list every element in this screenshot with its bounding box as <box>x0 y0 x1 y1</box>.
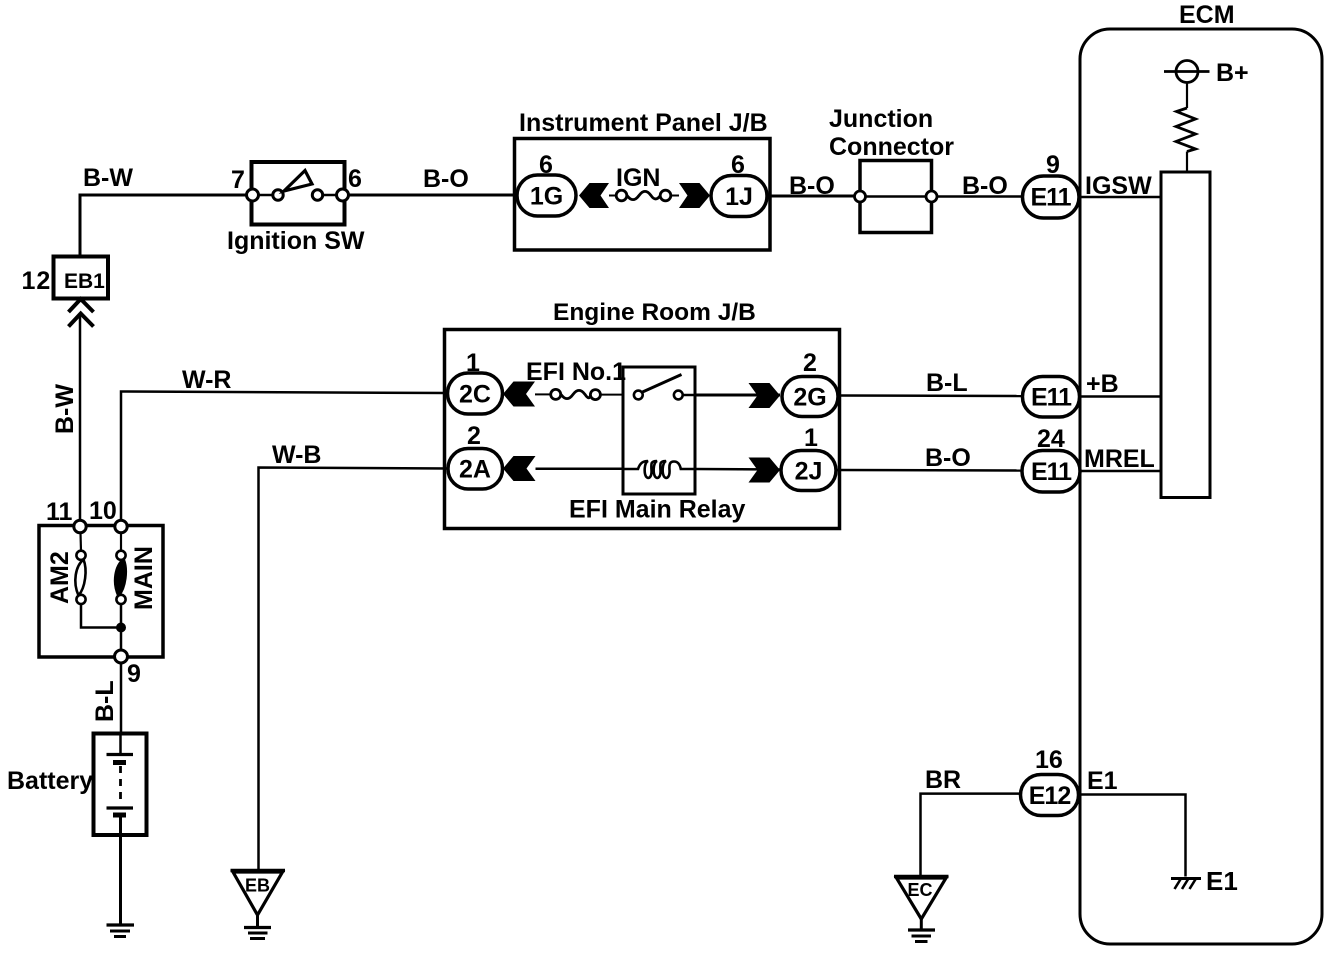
connector E12 <box>1021 775 1079 816</box>
wire B-W horizontal top-left <box>80 195 247 256</box>
B+ node symbol <box>1164 70 1210 73</box>
svg-text:Instrument Panel J/B: Instrument Panel J/B <box>519 109 768 137</box>
svg-text:2C: 2C <box>459 381 491 409</box>
svg-text:EC: EC <box>908 880 933 900</box>
svg-text:12: 12 <box>22 267 52 295</box>
svg-text:B-O: B-O <box>962 172 1008 200</box>
svg-text:EFI Main Relay: EFI Main Relay <box>569 496 746 524</box>
relay contact left <box>634 391 643 400</box>
svg-text:2G: 2G <box>793 384 826 412</box>
EC stem <box>920 919 923 930</box>
fuse box terminal 10 <box>115 520 127 532</box>
shield chevron 1 <box>69 299 94 312</box>
svg-text:Ignition SW: Ignition SW <box>227 227 365 255</box>
svg-text:B-W: B-W <box>83 164 133 192</box>
ignition SW box <box>252 162 345 225</box>
AM2 fuse element <box>75 560 85 596</box>
MAIN fuse top lead <box>120 533 122 551</box>
wire 2G to E11 +B <box>838 394 1023 397</box>
battery plate long bottom <box>107 806 134 809</box>
junction connector internal wire <box>866 195 926 198</box>
connector 2C <box>448 373 503 414</box>
junction dot <box>116 623 126 633</box>
connector 2J <box>781 451 836 491</box>
EB ground <box>244 926 271 929</box>
ignition SW internal wire left <box>257 194 274 196</box>
wire W-R from corner to 2C <box>121 392 448 521</box>
svg-text:AM2: AM2 <box>46 551 74 604</box>
svg-text:Engine Room J/B: Engine Room J/B <box>553 299 756 326</box>
battery dashed link <box>119 766 122 804</box>
arrow into 2A (points left) <box>503 456 536 481</box>
svg-text:EB: EB <box>245 876 270 896</box>
EC ground <box>908 928 935 931</box>
svg-text:IGN: IGN <box>616 164 660 192</box>
ignition SW inner contact left <box>273 190 283 200</box>
connector 1J <box>711 176 767 217</box>
AM2 to junction wire <box>81 604 121 628</box>
svg-text:B-W: B-W <box>51 384 79 434</box>
connector E11 (MREL) <box>1022 451 1080 493</box>
svg-text:W-R: W-R <box>182 366 231 394</box>
svg-text:7: 7 <box>231 166 245 194</box>
wire E11 to strip (+B) <box>1080 395 1161 398</box>
relay lever <box>643 375 682 393</box>
connector 1G <box>517 175 576 216</box>
svg-text:2J: 2J <box>795 458 823 486</box>
svg-text:B+: B+ <box>1216 59 1249 87</box>
wire BR from EC to E12 <box>921 794 1022 875</box>
svg-text:W-B: W-B <box>272 441 321 469</box>
battery plate short top <box>113 760 126 765</box>
wire relay to 2G arrow <box>695 394 780 397</box>
fuse EFI No.1 symbol <box>535 393 551 395</box>
svg-text:6: 6 <box>348 165 362 193</box>
svg-text:B-O: B-O <box>423 165 469 193</box>
svg-text:2A: 2A <box>459 456 491 484</box>
wire E12 to internal ground <box>1080 795 1186 877</box>
junction connector box <box>860 161 932 233</box>
svg-text:BR: BR <box>925 766 961 794</box>
svg-text:E12: E12 <box>1029 782 1071 810</box>
svg-text:11: 11 <box>46 498 73 526</box>
fuse IGN symbol <box>609 195 616 197</box>
ignition SW lever <box>284 171 312 192</box>
shield chevron 2 <box>69 314 94 327</box>
fuse box terminal 9 <box>115 650 128 663</box>
ignition SW terminal right <box>337 189 349 201</box>
wire relay coil to 2J arrow <box>695 468 780 471</box>
chassis ground E1 inside ECM <box>1171 877 1201 880</box>
wire fuse box to battery <box>120 663 123 734</box>
MAIN fuse top circle <box>116 551 125 560</box>
EFI Main Relay box <box>623 367 695 494</box>
Engine Room J/B box <box>445 330 840 529</box>
battery plate short bottom <box>113 813 126 818</box>
wire SW to Instrument Panel J/B <box>349 194 515 197</box>
MAIN to terminal wire <box>120 604 123 651</box>
svg-text:E11: E11 <box>1031 458 1072 486</box>
ECM box <box>1080 29 1322 944</box>
Instrument Panel J/B box <box>515 139 771 251</box>
arrow into 2J (points right) <box>749 458 781 483</box>
fuse box (AM2/MAIN) <box>39 526 163 658</box>
ground EC triangle <box>894 875 949 878</box>
battery ground <box>107 923 135 926</box>
ignition SW terminal left <box>247 189 259 201</box>
relay contact right <box>674 391 683 400</box>
svg-text:MREL: MREL <box>1084 445 1155 473</box>
AM2 fuse top circle <box>76 551 85 560</box>
wire junction connector to E11 <box>937 195 1023 198</box>
svg-text:E1: E1 <box>1206 866 1238 896</box>
svg-text:EB1: EB1 <box>64 270 105 293</box>
junction connector terminal right <box>926 191 937 202</box>
ECM internal connector strip <box>1161 172 1210 498</box>
arrow into 1J (points right) <box>679 183 710 208</box>
svg-text:1G: 1G <box>530 183 563 211</box>
arrow into 2C (points left) <box>503 382 535 407</box>
ignition SW internal wire right <box>321 194 338 196</box>
svg-text:10: 10 <box>89 497 117 525</box>
svg-text:ECM: ECM <box>1179 1 1235 29</box>
svg-text:EFI No.1: EFI No.1 <box>526 358 626 386</box>
battery bottom lead <box>119 817 122 925</box>
svg-text:+B: +B <box>1086 370 1119 398</box>
svg-text:E1: E1 <box>1087 767 1118 795</box>
battery top lead <box>119 735 122 753</box>
AM2 fuse top lead <box>79 533 82 551</box>
wire B+ to resistor <box>1186 83 1188 109</box>
connector 12 EB1 box <box>54 257 109 299</box>
connector E11 (+B) <box>1023 377 1080 418</box>
svg-text:E11: E11 <box>1031 384 1072 412</box>
connector 2A <box>448 449 503 490</box>
svg-text:Junction: Junction <box>829 105 933 133</box>
wire E11 to strip (IGSW) <box>1080 196 1161 199</box>
junction connector terminal left <box>855 191 866 202</box>
arrow into 1G (points left) <box>579 183 609 208</box>
svg-text:Battery: Battery <box>7 767 93 795</box>
connector E11 (IGSW) <box>1023 176 1080 218</box>
svg-text:B-L: B-L <box>926 369 968 397</box>
relay coil <box>623 461 695 478</box>
svg-text:16: 16 <box>1035 746 1063 774</box>
AM2 fuse bottom circle <box>76 595 85 604</box>
wire E11 to strip (MREL) <box>1080 470 1161 473</box>
relay contact wire to box edge <box>683 394 695 397</box>
svg-text:B-O: B-O <box>789 172 835 200</box>
wire resistor to strip <box>1186 152 1188 173</box>
svg-text:Connector: Connector <box>829 133 954 161</box>
battery plate long top <box>107 753 134 756</box>
ignition SW inner contact right <box>312 190 322 200</box>
wire W-B from corner to 2A <box>259 468 449 871</box>
ground EB triangle <box>231 869 286 872</box>
svg-text:B-L: B-L <box>91 680 119 722</box>
wire 1J to junction connector <box>767 195 855 198</box>
svg-text:B-O: B-O <box>925 444 971 472</box>
connector 2G <box>782 377 838 417</box>
fuse box terminal 11 <box>74 520 86 532</box>
arrow into 2G (points right) <box>749 383 781 408</box>
svg-text:MAIN: MAIN <box>130 546 158 610</box>
resistor inside ECM <box>1176 108 1196 152</box>
MAIN fuse element <box>115 560 125 596</box>
svg-text:E11: E11 <box>1030 184 1071 212</box>
MAIN fuse bottom circle <box>116 595 125 604</box>
wire B-W vertical to fuse box <box>79 315 82 521</box>
svg-text:1J: 1J <box>725 183 753 211</box>
wire 2A arrow to relay coil <box>536 468 624 471</box>
EB stem <box>256 915 259 927</box>
wire 2J to E11 MREL <box>836 469 1022 472</box>
svg-text:1: 1 <box>804 424 818 452</box>
svg-text:9: 9 <box>127 660 141 688</box>
battery box <box>94 734 147 836</box>
svg-text:2: 2 <box>803 349 817 377</box>
svg-text:2: 2 <box>467 422 481 450</box>
